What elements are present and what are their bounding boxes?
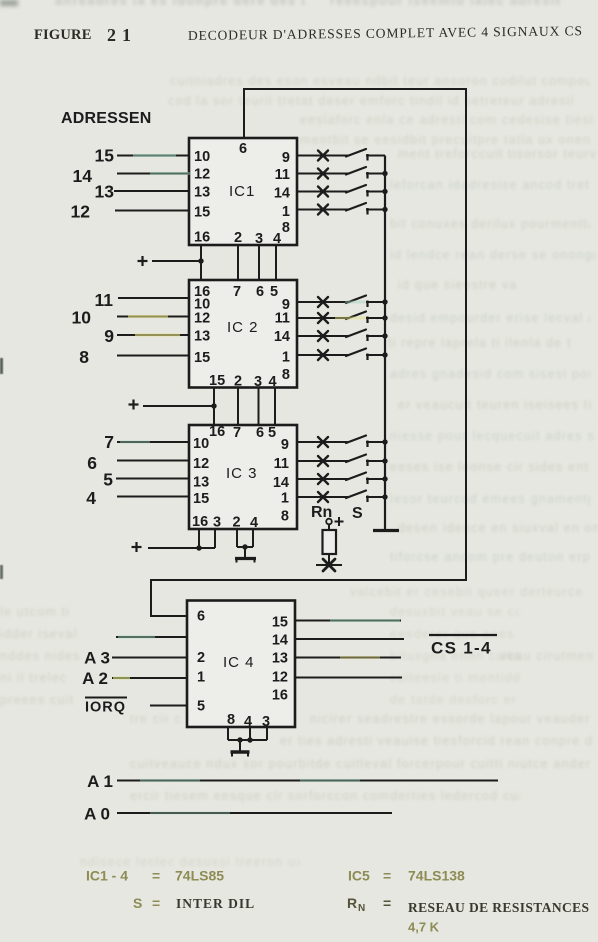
svg-text:15: 15 [95,146,115,166]
svg-text:12: 12 [193,456,209,472]
svg-text:14: 14 [73,166,93,186]
svg-text:1: 1 [281,491,289,507]
svg-text:R: R [347,895,357,911]
svg-text:13: 13 [272,651,288,667]
svg-text:S: S [133,895,142,911]
svg-text:12: 12 [194,167,210,183]
svg-text:9: 9 [104,326,114,346]
svg-text:10: 10 [193,436,209,452]
svg-text:13: 13 [194,185,210,201]
svg-text:16: 16 [209,424,225,440]
svg-text:6: 6 [256,284,264,300]
svg-text:=: = [152,868,160,884]
svg-text:A 0: A 0 [84,805,110,824]
svg-text:1: 1 [197,670,205,686]
svg-text:14: 14 [274,329,290,345]
svg-text:CS 1-4: CS 1-4 [431,639,492,658]
svg-text:IC5: IC5 [348,868,370,884]
svg-text:2: 2 [197,650,205,666]
svg-text:RESEAU DE RESISTANCES: RESEAU DE RESISTANCES [408,900,589,915]
svg-text:5: 5 [268,425,276,441]
svg-text:N: N [358,903,365,914]
svg-text:4: 4 [86,488,96,508]
svg-text:5: 5 [103,470,113,490]
svg-text:2: 2 [233,515,241,531]
svg-text:16: 16 [192,514,208,530]
svg-text:14: 14 [272,633,288,649]
svg-text:13: 13 [194,329,210,345]
svg-text:IC 3: IC 3 [226,465,258,482]
svg-text:A 2: A 2 [82,669,108,688]
svg-text:15: 15 [194,350,210,366]
svg-text:74LS138: 74LS138 [408,868,465,884]
svg-text:12: 12 [272,670,288,686]
svg-text:5: 5 [270,284,278,300]
svg-text:A 3: A 3 [84,649,110,668]
svg-text:15: 15 [272,615,288,631]
svg-text:11: 11 [274,456,289,472]
svg-text:IORQ: IORQ [85,700,126,716]
svg-text:11: 11 [275,311,290,327]
svg-text:9: 9 [281,437,289,453]
svg-text:4: 4 [250,515,258,531]
svg-text:15: 15 [209,373,225,389]
svg-text:1: 1 [282,204,290,220]
svg-text:15: 15 [194,205,210,221]
svg-text:11: 11 [95,290,114,310]
svg-text:IC 2: IC 2 [227,319,259,336]
svg-text:1: 1 [282,350,290,366]
svg-text:6: 6 [256,425,264,441]
svg-text:16: 16 [194,230,210,246]
svg-text:8: 8 [79,347,89,367]
svg-text:9: 9 [282,150,290,166]
svg-text:8: 8 [282,367,290,383]
svg-text:=: = [383,895,391,911]
svg-text:12: 12 [194,311,210,327]
svg-text:IC1: IC1 [229,183,255,200]
svg-text:7: 7 [233,284,241,300]
svg-text:A 1: A 1 [87,772,113,791]
svg-text:13: 13 [193,475,209,491]
svg-text:IC 4: IC 4 [223,654,255,671]
svg-text:5: 5 [197,699,205,715]
svg-text:4: 4 [273,231,281,247]
svg-text:7: 7 [104,432,114,452]
svg-text:4,7 K: 4,7 K [408,920,440,935]
svg-text:=: = [152,895,160,911]
svg-text:6: 6 [197,609,205,625]
svg-text:6: 6 [87,453,97,473]
svg-text:2: 2 [234,230,242,246]
svg-text:6: 6 [239,141,247,157]
svg-text:7: 7 [233,425,241,441]
svg-text:14: 14 [273,475,289,491]
svg-text:14: 14 [274,186,290,202]
svg-text:8: 8 [227,712,235,728]
svg-text:12: 12 [71,202,91,222]
svg-text:13: 13 [95,182,115,202]
svg-text:=: = [383,868,391,884]
svg-text:10: 10 [72,308,92,328]
svg-text:8: 8 [281,509,289,525]
svg-text:S: S [352,505,363,522]
svg-text:10: 10 [194,149,210,165]
svg-text:IC1 - 4: IC1 - 4 [86,868,128,884]
svg-text:INTER DIL: INTER DIL [176,896,255,911]
svg-text:3: 3 [213,515,221,531]
svg-text:11: 11 [275,167,290,183]
svg-text:8: 8 [282,220,290,236]
svg-text:15: 15 [193,491,209,507]
svg-text:16: 16 [272,688,288,704]
svg-text:74LS85: 74LS85 [175,868,224,884]
